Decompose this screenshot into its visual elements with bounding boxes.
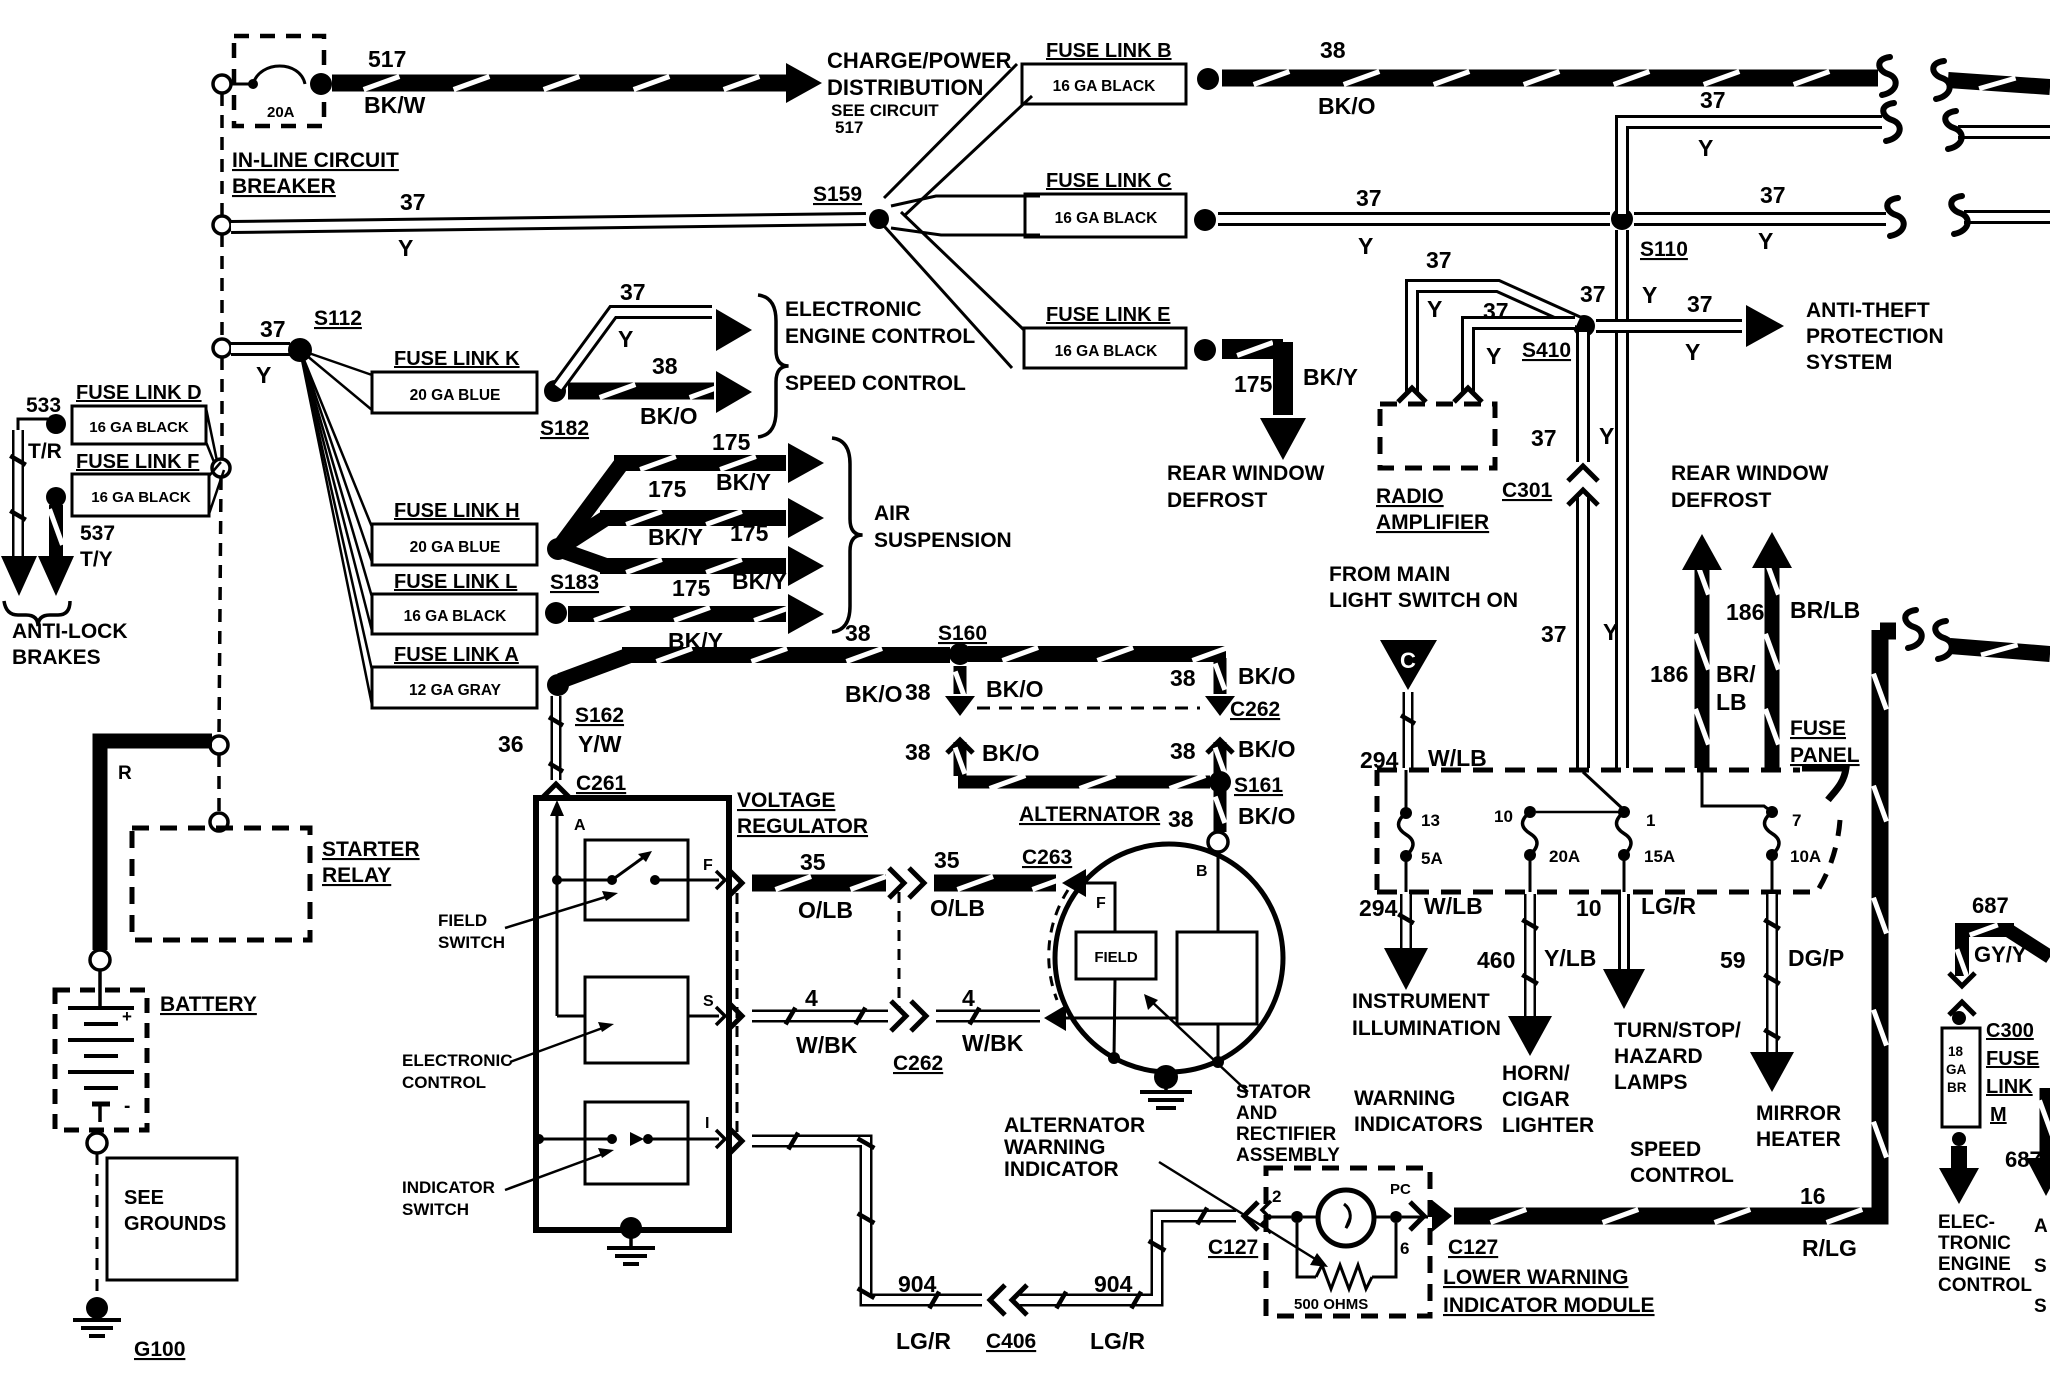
label C262 (lower) <box>893 1052 943 1075</box>
fuse link H box <box>372 524 537 565</box>
label 38 (lower left) <box>905 739 931 765</box>
svg-text:S162: S162 <box>575 704 624 727</box>
voltage regulator ground <box>607 1217 655 1264</box>
label BK/O (lower left) <box>982 740 1040 766</box>
label Y (right of S110) <box>1758 228 1773 254</box>
in-line circuit breaker dashed box <box>234 36 324 126</box>
node fuse link L output <box>545 602 567 624</box>
label FUSE LINK L <box>394 571 517 593</box>
svg-text:BK/Y: BK/Y <box>732 568 787 594</box>
air suspension wire 3 <box>558 546 824 586</box>
svg-text:T/R: T/R <box>28 440 62 463</box>
label HORN CIGAR LIGHTER <box>1502 1062 1594 1137</box>
electronic control box <box>557 880 719 1063</box>
label 38 (S162-S160) <box>845 620 871 646</box>
svg-text:O/LB: O/LB <box>798 897 853 923</box>
fuse link D box <box>72 406 217 462</box>
label R <box>118 763 132 784</box>
radio amp connector chevrons <box>1398 388 1482 402</box>
label Y/W <box>578 731 622 757</box>
wire 294 W/LB from C <box>1401 692 1415 768</box>
svg-text:FUSE: FUSE <box>1986 1048 2039 1070</box>
svg-text:C262: C262 <box>893 1052 943 1075</box>
fuse link L box <box>372 594 537 634</box>
svg-text:CONTROL: CONTROL <box>1630 1164 1734 1187</box>
svg-text:ELECTRONIC: ELECTRONIC <box>402 1051 513 1070</box>
node S110 <box>1611 208 1688 261</box>
label S pin <box>703 993 725 1025</box>
svg-text:C406: C406 <box>986 1330 1036 1353</box>
svg-text:16 GA BLACK: 16 GA BLACK <box>89 419 189 436</box>
label FUSE PANEL <box>1790 717 1860 767</box>
svg-text:904: 904 <box>898 1271 937 1297</box>
svg-text:F: F <box>1096 895 1106 912</box>
air suspension wire 2 <box>558 498 824 549</box>
label BR/LB (right) <box>1790 597 1860 623</box>
label REAR WINDOW DEFROST (left) <box>1167 462 1325 512</box>
wedge to fuse link E <box>884 212 1024 368</box>
wire 36 Y/W to C261 <box>549 696 563 780</box>
svg-text:517: 517 <box>835 118 863 137</box>
svg-text:SYSTEM: SYSTEM <box>1806 351 1892 374</box>
node S182 <box>540 380 589 440</box>
svg-text:38: 38 <box>652 353 678 379</box>
svg-text:175: 175 <box>1234 371 1273 397</box>
svg-text:A: A <box>574 817 586 834</box>
svg-text:GY/Y: GY/Y <box>1974 942 2027 967</box>
label Y (below C301) <box>1603 619 1618 645</box>
label 35 (right) <box>934 847 960 873</box>
fuse 1 15A <box>1617 806 1676 866</box>
wire 38 BK/O S160 down arrow <box>945 666 975 716</box>
svg-text:1: 1 <box>1646 811 1655 830</box>
svg-text:+: + <box>122 1007 132 1026</box>
svg-text:C301: C301 <box>1502 479 1553 502</box>
svg-text:BK/Y: BK/Y <box>648 524 703 550</box>
wire 37 Y to S159 <box>231 219 866 227</box>
svg-text:ENGINE: ENGINE <box>1938 1254 2011 1275</box>
label BK/O (speed control) <box>640 403 698 429</box>
label C406 <box>986 1330 1036 1353</box>
label BK/O (lower right) <box>1238 736 1296 762</box>
wire 38 BK/O right edge <box>1948 78 2050 89</box>
svg-text:AND: AND <box>1236 1103 1277 1124</box>
svg-text:LG/R: LG/R <box>896 1328 951 1354</box>
svg-text:LIGHT SWITCH ON: LIGHT SWITCH ON <box>1329 589 1518 612</box>
label BK/Y (S162 wire) <box>0 0 1 1</box>
wire 537 T/Y anti-lock <box>38 505 74 596</box>
svg-text:BK/O: BK/O <box>1238 736 1296 762</box>
svg-text:5A: 5A <box>1421 849 1443 868</box>
battery top terminal <box>90 950 110 970</box>
wire 38 BK/O S160 right then down <box>968 648 1235 717</box>
svg-text:16 GA BLACK: 16 GA BLACK <box>1053 78 1157 95</box>
fuse link B box <box>1022 64 1186 104</box>
label Y (EEC) <box>618 326 633 352</box>
labels 175 BK/Y row3 <box>648 520 769 550</box>
labels 175 BK/Y row1 <box>712 429 751 455</box>
svg-text:DEFROST: DEFROST <box>1167 489 1268 512</box>
svg-text:S160: S160 <box>938 622 987 645</box>
label FUSE LINK D <box>76 382 202 404</box>
svg-text:BK/O: BK/O <box>1238 663 1296 689</box>
electronic control callout <box>402 1022 614 1092</box>
svg-text:FIELD: FIELD <box>1094 949 1137 966</box>
label 37 (EEC) <box>620 279 646 305</box>
wire 38 BK/O S162 to S160 <box>560 649 950 682</box>
svg-text:W/LB: W/LB <box>1424 893 1483 919</box>
svg-text:Y: Y <box>1599 423 1614 449</box>
svg-text:C261: C261 <box>576 772 627 795</box>
battery dashed box <box>55 990 147 1130</box>
svg-text:37: 37 <box>1531 425 1557 451</box>
junction circle fuse links D/F <box>212 459 230 477</box>
label 687 (GY/Y) <box>1972 893 2009 918</box>
battery bottom terminal <box>87 1133 107 1153</box>
wire 38 BK/O S161 to alternator <box>1215 790 1225 832</box>
svg-text:Y: Y <box>1486 343 1501 369</box>
svg-text:REAR WINDOW: REAR WINDOW <box>1671 462 1829 485</box>
label FUSE LINK H <box>394 500 520 522</box>
label 20A <box>267 104 295 121</box>
label 2 <box>1272 1187 1281 1206</box>
wire 37 Y S110 down to fuse panel <box>1615 230 1629 768</box>
label W/BK (left) <box>796 1032 858 1058</box>
label ELECTRONIC ENGINE CONTROL <box>785 298 975 348</box>
voltage regulator box <box>536 798 729 1230</box>
label 36 <box>498 731 524 757</box>
alternator B wire <box>1217 852 1220 932</box>
alternator circle <box>1055 844 1283 1072</box>
arrow horn cigar lighter <box>1508 894 1552 1056</box>
node fuse link E output <box>1194 339 1216 361</box>
fuse panel 37 wire link <box>1583 772 1624 810</box>
svg-text:BK/O: BK/O <box>1318 93 1376 119</box>
alternator B terminal <box>1196 832 1228 880</box>
svg-text:4: 4 <box>805 985 818 1011</box>
svg-text:PC: PC <box>1390 1181 1411 1198</box>
svg-text:S: S <box>703 993 714 1010</box>
edge letters <box>2034 1216 2048 1317</box>
label 6 <box>1400 1239 1409 1258</box>
arrow mirror heater <box>1750 894 1794 1092</box>
svg-text:37: 37 <box>1426 247 1452 273</box>
air suspension wire 4 <box>568 594 824 634</box>
node S161 <box>1209 771 1283 797</box>
svg-text:38: 38 <box>1168 806 1194 832</box>
svg-text:16 GA BLACK: 16 GA BLACK <box>1055 343 1159 360</box>
label BR/LB (left, two lines) <box>1716 661 1756 715</box>
svg-text:-: - <box>124 1096 130 1117</box>
dashed line battery to G100 <box>96 1153 99 1298</box>
label W/BK (right) <box>962 1030 1024 1056</box>
svg-text:175: 175 <box>672 575 711 601</box>
wire 37 Y right edge 2 <box>1951 196 2050 234</box>
stator callout arrow <box>1144 994 1248 1092</box>
label 186 (right) <box>1726 599 1764 625</box>
label 38 (speed control) <box>652 353 678 379</box>
svg-text:LOWER WARNING: LOWER WARNING <box>1443 1266 1628 1289</box>
fuse 7 10A <box>1702 772 1821 866</box>
node S183 <box>547 538 599 594</box>
connector C406 chevrons <box>990 1285 1027 1315</box>
label 37 (top wire) <box>400 189 426 215</box>
svg-text:CHARGE/POWER: CHARGE/POWER <box>827 48 1012 73</box>
label Y (to S110) <box>1358 233 1373 259</box>
wire break squiggles 38 wire <box>1879 57 1949 99</box>
label BK/O (fuse link B wire) <box>1318 93 1376 119</box>
svg-text:BK/O: BK/O <box>986 676 1044 702</box>
svg-text:20 GA BLUE: 20 GA BLUE <box>410 539 501 556</box>
svg-text:517: 517 <box>368 46 406 72</box>
label C262 (right) <box>1230 698 1280 721</box>
svg-text:C127: C127 <box>1208 1236 1258 1259</box>
indicator switch callout <box>402 1148 614 1219</box>
arrow to electronic engine control <box>1939 1146 1979 1204</box>
label A pin <box>550 800 586 880</box>
svg-text:10: 10 <box>1576 895 1602 921</box>
label Y (top wire) <box>398 235 413 261</box>
svg-text:BK/O: BK/O <box>1238 803 1296 829</box>
wire 38 BK/O S161 horizontal <box>958 776 1210 789</box>
label 37 (below C301) <box>1541 621 1567 647</box>
label 38 (left C262) <box>905 679 931 705</box>
label 904 (left) <box>898 1271 937 1297</box>
svg-text:Y: Y <box>1698 135 1713 161</box>
label FUSE LINK A <box>394 644 519 666</box>
svg-text:7: 7 <box>1792 811 1801 830</box>
label STARTER RELAY <box>322 838 420 887</box>
label Y (radio wire1) <box>1427 296 1442 322</box>
svg-text:M: M <box>1990 1104 2007 1126</box>
label BK/W <box>364 92 426 118</box>
svg-text:ELECTRONIC: ELECTRONIC <box>785 298 922 321</box>
svg-text:20A: 20A <box>1549 847 1580 866</box>
connector C127 right <box>1410 1200 1498 1259</box>
label 37 (above S410) <box>1580 281 1606 307</box>
svg-text:12 GA GRAY: 12 GA GRAY <box>409 682 502 699</box>
svg-text:S161: S161 <box>1234 774 1283 797</box>
svg-text:INDICATOR: INDICATOR <box>402 1178 495 1197</box>
svg-text:BREAKER: BREAKER <box>232 175 336 198</box>
label 38 (fuse link B wire) <box>1320 37 1346 63</box>
svg-text:C263: C263 <box>1022 846 1072 869</box>
svg-text:W/BK: W/BK <box>796 1032 858 1058</box>
connector C261 <box>541 772 627 799</box>
svg-text:A: A <box>2034 1216 2048 1237</box>
label PC <box>1390 1181 1411 1198</box>
svg-text:38: 38 <box>845 620 871 646</box>
svg-text:DG/P: DG/P <box>1788 945 1844 971</box>
svg-text:175: 175 <box>648 476 687 502</box>
label FUSE LINK K <box>394 348 520 370</box>
svg-text:FROM MAIN: FROM MAIN <box>1329 563 1450 586</box>
svg-text:HEATER: HEATER <box>1756 1128 1841 1151</box>
connector C262 dashed line <box>977 707 1200 710</box>
alternator field wire <box>1078 883 1115 932</box>
label O/LB (right) <box>930 895 985 921</box>
label LOWER WARNING INDICATOR MODULE <box>1443 1266 1655 1317</box>
wedge to fuse link C <box>891 196 1040 235</box>
svg-text:DEFROST: DEFROST <box>1671 489 1772 512</box>
svg-text:T/Y: T/Y <box>80 548 113 571</box>
svg-text:38: 38 <box>1170 738 1196 764</box>
radio amplifier dashed box <box>1380 404 1495 468</box>
svg-text:Y: Y <box>618 326 633 352</box>
svg-text:687: 687 <box>1972 893 2009 918</box>
dashed battery feed line <box>219 93 222 813</box>
svg-text:INDICATORS: INDICATORS <box>1354 1113 1483 1136</box>
svg-text:ALTERNATOR: ALTERNATOR <box>1004 1114 1145 1137</box>
svg-text:Y: Y <box>256 362 271 388</box>
svg-text:SPEED: SPEED <box>1630 1138 1701 1161</box>
svg-text:904: 904 <box>1094 1271 1133 1297</box>
labels BK/Y row5 <box>668 628 723 654</box>
fuse link M box <box>1942 1028 1980 1127</box>
svg-text:FUSE LINK D: FUSE LINK D <box>76 382 202 404</box>
labels 175 BK/Y row4 <box>672 568 787 601</box>
C263 dashed arc <box>1049 890 1068 1000</box>
fuse panel exit 59 <box>1771 855 1774 892</box>
label 460 Y/LB <box>1477 945 1596 973</box>
wire radio amplifier 1 <box>1412 286 1578 392</box>
svg-text:533: 533 <box>26 394 61 417</box>
node fuse link B output <box>1197 68 1219 90</box>
label 537 <box>80 522 115 545</box>
svg-text:LB: LB <box>1716 689 1747 715</box>
svg-text:16 GA BLACK: 16 GA BLACK <box>91 489 191 506</box>
svg-text:INDICATOR: INDICATOR <box>1004 1158 1119 1181</box>
svg-text:FUSE LINK K: FUSE LINK K <box>394 348 520 370</box>
brace air suspension <box>832 438 863 632</box>
label ALTERNATOR WARNING INDICATOR <box>1004 1114 1145 1181</box>
svg-text:C127: C127 <box>1448 1236 1498 1259</box>
circuit breaker element <box>226 66 332 95</box>
label I pin <box>705 1115 725 1148</box>
svg-text:37: 37 <box>260 316 286 342</box>
label 37 (to S110) <box>1356 185 1382 211</box>
wire 35 O/LB <box>752 877 886 890</box>
alternator internal grounds <box>1108 979 1224 1068</box>
svg-text:BR: BR <box>1947 1080 1967 1095</box>
junction circle 37Y top <box>213 216 231 234</box>
svg-text:ANTI-LOCK: ANTI-LOCK <box>12 620 127 643</box>
svg-text:BR/: BR/ <box>1716 661 1756 687</box>
fuse link K box <box>372 372 537 413</box>
svg-text:I: I <box>705 1115 709 1132</box>
starter relay dashed box <box>132 828 310 940</box>
label 59 DG/P <box>1720 945 1844 973</box>
alternator rectifier box <box>1177 932 1257 1024</box>
svg-text:2: 2 <box>1272 1187 1281 1206</box>
wire 517 BK/W <box>332 63 822 103</box>
label Y (upper right) <box>1698 135 1713 161</box>
svg-text:BRAKES: BRAKES <box>12 646 101 669</box>
svg-text:B: B <box>1196 863 1208 880</box>
fuse panel dashed box <box>1377 768 1846 892</box>
label CHARGE/POWER DISTRIBUTION SEE CIRCUIT 517 <box>827 48 1012 137</box>
svg-text:GROUNDS: GROUNDS <box>124 1213 226 1235</box>
label T/Y <box>80 548 113 571</box>
svg-text:HAZARD: HAZARD <box>1614 1045 1703 1068</box>
svg-text:PANEL: PANEL <box>1790 744 1860 767</box>
svg-text:ASSEMBLY: ASSEMBLY <box>1236 1145 1340 1166</box>
label 175 (defrost) <box>1234 371 1273 397</box>
junction circle battery feed <box>210 736 228 754</box>
label SPEED CONTROL (bottom) <box>1630 1138 1734 1187</box>
svg-text:37: 37 <box>1356 185 1382 211</box>
wire 37 Y S110 up and right <box>1622 103 1900 214</box>
svg-text:S: S <box>2034 1296 2047 1317</box>
indicator switch box <box>534 1102 719 1184</box>
svg-text:MIRROR: MIRROR <box>1756 1102 1841 1125</box>
svg-text:BR/LB: BR/LB <box>1790 597 1860 623</box>
svg-text:FIELD: FIELD <box>438 911 487 930</box>
svg-text:FUSE LINK B: FUSE LINK B <box>1046 40 1172 62</box>
label O/LB (left) <box>798 897 853 923</box>
label FUSE LINK C <box>1046 170 1172 192</box>
fuse 13 5A <box>1399 770 1443 868</box>
brace electronic engine control <box>758 295 789 437</box>
wire 687 GY/Y <box>1957 925 2050 977</box>
wire 38 BK/O to speed control <box>568 371 752 413</box>
svg-text:Y: Y <box>1758 228 1773 254</box>
svg-text:FUSE LINK H: FUSE LINK H <box>394 500 520 522</box>
svg-text:13: 13 <box>1421 811 1440 830</box>
fuse 10 20A <box>1494 806 1620 866</box>
fuse link C box <box>1025 194 1186 237</box>
svg-text:F: F <box>703 857 713 874</box>
svg-text:LIGHTER: LIGHTER <box>1502 1114 1594 1137</box>
svg-text:16: 16 <box>1800 1183 1826 1209</box>
svg-text:16 GA BLACK: 16 GA BLACK <box>1055 210 1159 227</box>
wire 37 Y to S112 <box>231 342 290 356</box>
svg-text:38: 38 <box>1320 37 1346 63</box>
svg-text:STARTER: STARTER <box>322 838 420 861</box>
label BK/O (S161-alt) <box>1238 803 1296 829</box>
svg-text:BK/O: BK/O <box>845 681 903 707</box>
connector chevron C262 right <box>1207 740 1233 753</box>
label 4 (left) <box>805 985 818 1011</box>
svg-text:186: 186 <box>1650 661 1688 687</box>
connector C301 <box>1502 466 1598 505</box>
svg-text:G100: G100 <box>134 1338 185 1361</box>
svg-text:S: S <box>2034 1256 2047 1277</box>
label REAR WINDOW DEFROST (right) <box>1671 462 1829 512</box>
svg-text:W/BK: W/BK <box>962 1030 1024 1056</box>
svg-text:38: 38 <box>905 679 931 705</box>
arrow 186 BR/LB left <box>1682 534 1722 768</box>
brace anti-lock brakes <box>4 601 70 626</box>
svg-text:186: 186 <box>1726 599 1764 625</box>
svg-text:RADIO: RADIO <box>1376 485 1444 508</box>
svg-text:S112: S112 <box>314 307 362 330</box>
svg-text:ILLUMINATION: ILLUMINATION <box>1352 1017 1501 1040</box>
label 37 (S112 feed) <box>260 316 286 342</box>
node S410 <box>1522 315 1595 362</box>
label 687 (lower) <box>2005 1147 2042 1172</box>
arrow 687 right edge <box>2026 1088 2050 1196</box>
node S159 <box>813 183 889 229</box>
svg-text:Y/W: Y/W <box>578 731 622 757</box>
svg-text:C: C <box>1400 648 1416 673</box>
svg-text:16 GA BLACK: 16 GA BLACK <box>404 608 508 625</box>
triangle connector C <box>1380 640 1437 690</box>
trunk wire top corner right <box>1880 610 2050 659</box>
svg-text:INDICATOR MODULE: INDICATOR MODULE <box>1443 1294 1655 1317</box>
module gauge circle <box>1318 1190 1374 1246</box>
node S160 <box>938 622 987 665</box>
